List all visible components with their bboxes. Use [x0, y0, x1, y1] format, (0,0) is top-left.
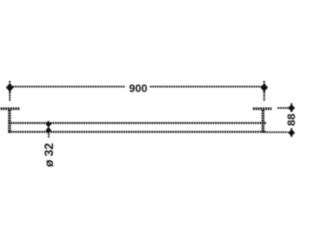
dimension o32: lower arrow	[46, 127, 52, 138]
towel bar top outline	[8, 122, 266, 124]
dimension 900: left extension line below marker	[9, 92, 11, 101]
dimension 900: dimension line left segment	[13, 86, 126, 88]
dimension 88: top tick line	[278, 107, 289, 109]
dimension 88: top arrow	[288, 103, 295, 112]
dimension 900: dimension line right segment	[150, 86, 262, 88]
dimension 900: right arrow marker	[260, 81, 268, 92]
svg-text:ø 32: ø 32	[42, 143, 56, 167]
dimension 88: bottom tick line	[267, 131, 289, 133]
right wall bracket cap	[253, 107, 272, 110]
dimension o32: upper arrow	[46, 121, 52, 128]
left wall bracket cap	[1, 107, 20, 110]
dimension 900: left arrow marker	[6, 81, 14, 92]
right wall bracket stem	[262, 110, 265, 133]
left wall bracket stem	[8, 110, 11, 133]
towel bar bottom outline	[8, 131, 266, 133]
svg-text:900: 900	[129, 83, 147, 95]
svg-text:88: 88	[286, 114, 298, 126]
dimension 900: right extension line below marker	[263, 92, 265, 101]
dimension 88: bottom arrow	[288, 128, 295, 137]
